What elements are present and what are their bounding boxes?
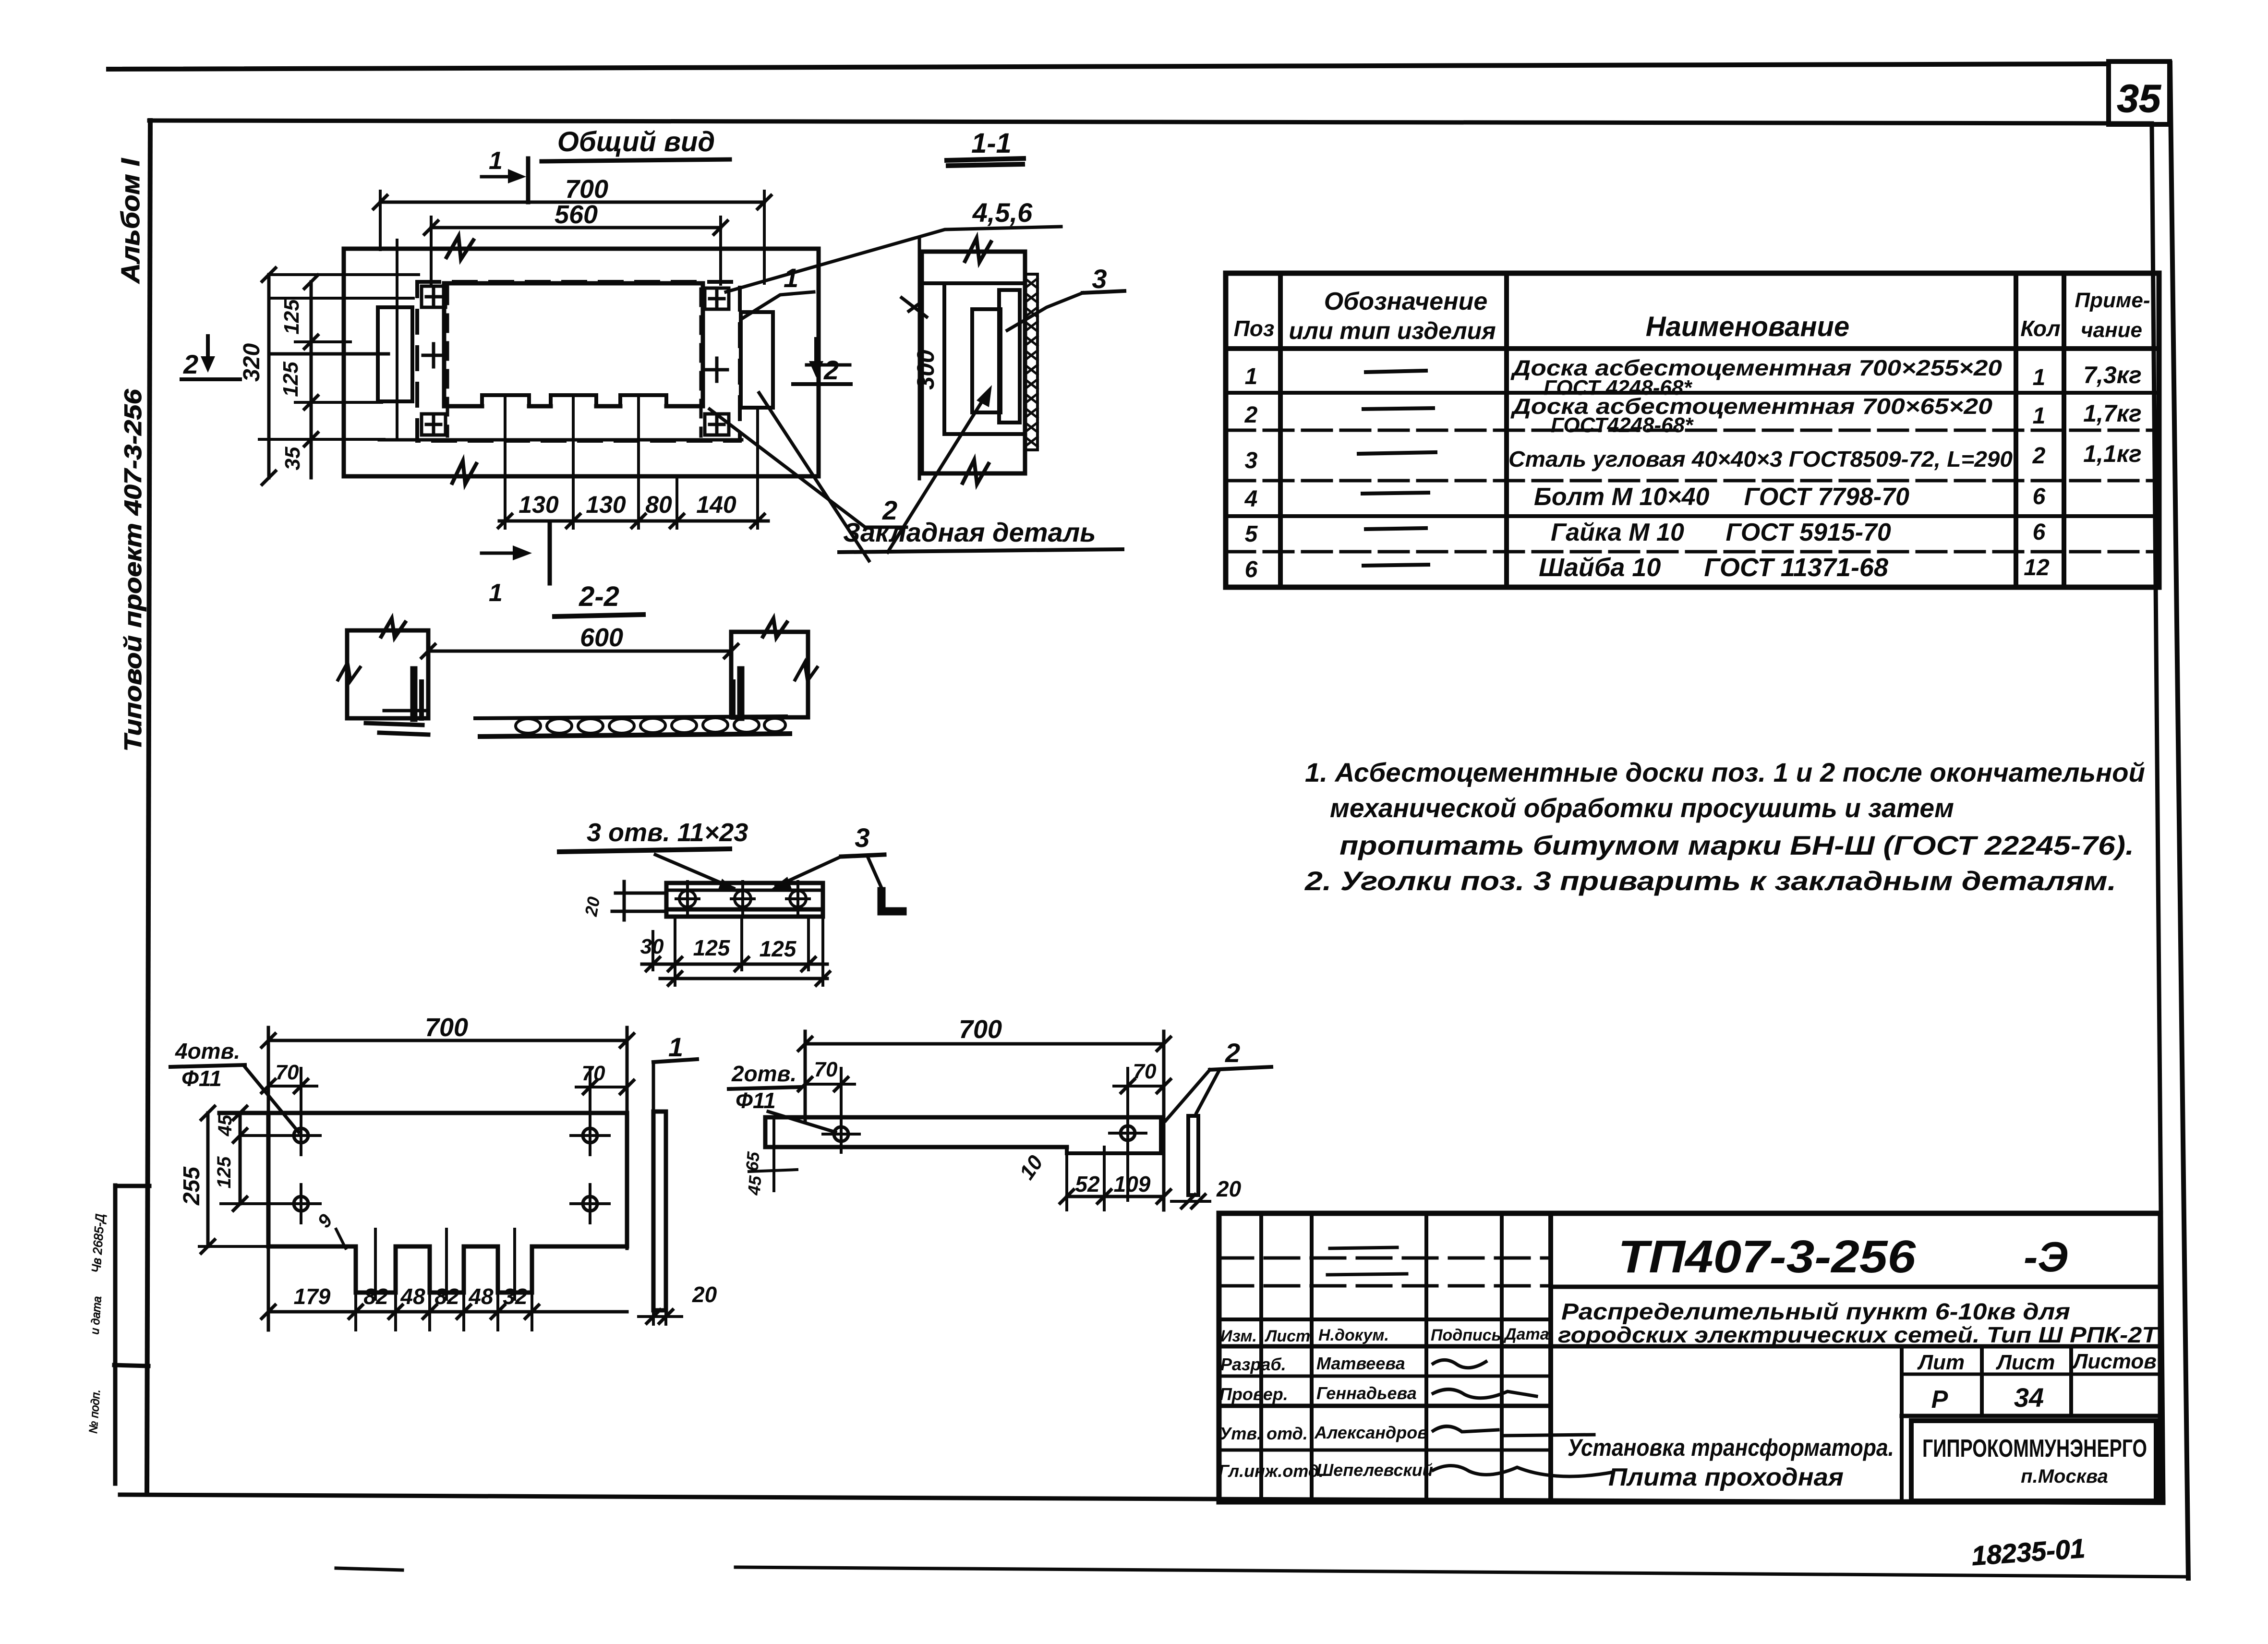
svg-text:125: 125: [279, 362, 302, 397]
svg-text:Гл.инж.отд.: Гл.инж.отд.: [1218, 1461, 1324, 1481]
svg-text:130: 130: [519, 491, 559, 518]
overall width line: [660, 977, 827, 980]
bottom dimension line 130/130/80/140: [499, 520, 768, 523]
svg-text:1,1кг: 1,1кг: [2083, 440, 2142, 467]
svg-text:Сталь угловая 40×40×3 ГОСТ8509: Сталь угловая 40×40×3 ГОСТ8509-72, L=290: [1508, 447, 2013, 471]
tab 2: [551, 395, 596, 406]
asbestos board strip with holes: [475, 716, 786, 718]
svg-text:Установка трансформатора.: Установка трансформатора.: [1568, 1434, 1894, 1461]
dimension 600: [428, 650, 731, 653]
block outline 1-1: [922, 252, 1025, 473]
svg-text:Поз: Поз: [1234, 316, 1275, 341]
svg-text:45: 45: [215, 1114, 236, 1136]
dimension chain 45/125: [239, 1113, 242, 1204]
svg-text:Альбом I: Альбом I: [116, 158, 145, 284]
board plank (pos 3 area): [999, 290, 1020, 423]
svg-text:700: 700: [565, 175, 608, 204]
break mark bottom: [963, 460, 989, 484]
dimension 560: [431, 226, 721, 230]
leader to 1-1 plank with arrow: [888, 392, 988, 552]
svg-text:255: 255: [179, 1166, 205, 1206]
header bottom line: [1226, 346, 2159, 351]
svg-text:Матвеева: Матвеева: [1316, 1354, 1405, 1373]
bolt cross left middle: [423, 344, 444, 367]
dimension 700 (top): [380, 201, 764, 204]
inner frame bottom: [120, 1495, 2163, 1503]
svg-text:Лист: Лист: [1996, 1351, 2055, 1374]
svg-text:700: 700: [959, 1015, 1002, 1044]
dimension 320 (left chain): [267, 275, 271, 478]
inner frame top: [149, 121, 2152, 123]
project number cell: [1551, 1285, 2160, 1289]
svg-text:700: 700: [425, 1013, 468, 1042]
svg-text:чание: чание: [2081, 318, 2142, 342]
svg-text:125: 125: [760, 936, 797, 961]
svg-text:Общий вид: Общий вид: [557, 126, 715, 157]
svg-text:20: 20: [581, 895, 604, 919]
left block 2-2: [347, 630, 428, 718]
svg-text:6: 6: [1245, 557, 1258, 582]
angle bar detail: [666, 883, 823, 917]
svg-text:Дата: Дата: [1503, 1325, 1549, 1343]
svg-text:1. Асбестоцементные доски поз.: 1. Асбестоцементные доски поз. 1 и 2 пос…: [1305, 757, 2145, 787]
hole left plate2: [834, 1127, 848, 1141]
svg-text:1: 1: [668, 1032, 683, 1062]
dashed fastener columns: [446, 287, 449, 436]
top rule of sheet: [109, 64, 2109, 69]
svg-text:1: 1: [489, 147, 503, 175]
svg-text:82: 82: [434, 1284, 459, 1309]
signature table verticals: [1259, 1213, 1263, 1502]
svg-text:125: 125: [214, 1156, 235, 1188]
svg-text:140: 140: [696, 491, 736, 518]
svg-text:п.Москва: п.Москва: [2021, 1466, 2108, 1487]
svg-text:130: 130: [586, 491, 626, 518]
left stub of bar: [612, 893, 666, 911]
svg-text:3: 3: [1092, 264, 1107, 294]
svg-text:1: 1: [784, 263, 798, 293]
svg-text:-Э: -Э: [2024, 1233, 2068, 1281]
svg-text:3 отв. 11×23: 3 отв. 11×23: [587, 818, 748, 847]
opening rect 1-1: [972, 309, 1001, 412]
bolt group left bottom: [422, 414, 446, 435]
break mark on top edge: [446, 236, 473, 259]
svg-text:ТП407-3-256: ТП407-3-256: [1618, 1231, 1916, 1282]
bottom stub line: [336, 1568, 402, 1570]
parts table outer border: [1226, 273, 2159, 587]
svg-text:ГОСТ4248-68*: ГОСТ4248-68*: [1551, 413, 1694, 437]
svg-text:12: 12: [2024, 555, 2050, 580]
svg-text:6: 6: [2033, 520, 2046, 545]
svg-text:Распределительный пункт 6-10кв: Распределительный пункт 6-10кв для: [1561, 1299, 2070, 1325]
bolt holes on bar: [679, 891, 696, 907]
svg-text:Болт М 10×40 ГОСТ 7798-70: Болт М 10×40 ГОСТ 7798-70: [1534, 483, 1909, 511]
bolt group right bottom: [705, 414, 729, 435]
hole right plate2: [1121, 1126, 1135, 1140]
break mark top: [965, 238, 991, 262]
dims 52 / 109: [1067, 1195, 1164, 1198]
svg-text:45: 45: [744, 1174, 765, 1196]
edge view bar plate2: [1188, 1116, 1198, 1195]
svg-text:Листов: Листов: [2072, 1350, 2157, 1373]
svg-text:320: 320: [239, 343, 265, 382]
title block outer border: [1219, 1213, 2160, 1502]
svg-text:Приме-: Приме-: [2075, 289, 2150, 312]
svg-text:5: 5: [1245, 521, 1258, 547]
svg-text:70: 70: [276, 1061, 299, 1084]
svg-text:Геннадьева: Геннадьева: [1316, 1383, 1417, 1403]
svg-text:20: 20: [692, 1282, 717, 1307]
holes plate1: [294, 1128, 308, 1143]
svg-text:70: 70: [814, 1058, 838, 1081]
svg-text:2-2: 2-2: [579, 581, 619, 612]
svg-text:82: 82: [363, 1284, 388, 1309]
svg-text:Р: Р: [1931, 1386, 1948, 1414]
svg-text:2. Уголки поз. 3 приварить к з: 2. Уголки поз. 3 приварить к закладным д…: [1304, 866, 2116, 896]
concrete block outline: [344, 249, 819, 476]
section 2 cut line right with marker: [807, 363, 850, 367]
page number box 35: [2109, 61, 2170, 124]
svg-text:Наименование: Наименование: [1646, 311, 1849, 342]
svg-text:65: 65: [742, 1150, 763, 1172]
svg-text:3: 3: [1245, 448, 1258, 473]
svg-text:48: 48: [400, 1284, 425, 1309]
break mark on bottom edge: [452, 461, 476, 484]
angle steel left: [410, 670, 418, 718]
svg-text:4отв.: 4отв.: [175, 1039, 240, 1064]
section 2 cut line left with marker: [269, 352, 388, 356]
svg-text:1: 1: [489, 579, 503, 607]
svg-text:125: 125: [693, 935, 731, 960]
dimension 255: [206, 1113, 210, 1246]
svg-text:2: 2: [1225, 1038, 1240, 1068]
dimension 700 plate1: [268, 1039, 627, 1042]
svg-text:80: 80: [645, 491, 672, 518]
svg-text:Ф11: Ф11: [736, 1088, 776, 1113]
column line pos: [1278, 273, 1283, 587]
detail dimensions 30/125/125: [653, 917, 808, 970]
svg-text:Шепелевский: Шепелевский: [1316, 1460, 1433, 1480]
svg-text:Закладная деталь: Закладная деталь: [843, 517, 1096, 547]
dimension chain 125/125/35: [310, 282, 313, 478]
svg-text:пропитать битумом марки БН-Ш (: пропитать битумом марки БН-Ш (ГОСТ 22245…: [1339, 830, 2134, 860]
svg-text:109: 109: [1114, 1172, 1151, 1197]
dimension 700 plate2: [805, 1042, 1164, 1046]
signature table horizontals: [1219, 1257, 1551, 1260]
svg-text:Н.докум.: Н.докум.: [1318, 1326, 1389, 1344]
leader to general view: [759, 393, 869, 561]
svg-text:Ф11: Ф11: [181, 1066, 222, 1091]
svg-text:и дата: и дата: [88, 1296, 104, 1335]
svg-text:20: 20: [1216, 1176, 1242, 1201]
right angle bracket: [741, 312, 773, 408]
svg-text:6: 6: [2033, 484, 2046, 509]
smudge under left block: [366, 723, 428, 735]
svg-text:Лист: Лист: [1264, 1327, 1310, 1345]
svg-text:30: 30: [640, 935, 664, 958]
svg-text:Разраб.: Разраб.: [1220, 1354, 1286, 1374]
diagonal to hole from callout: [245, 1067, 269, 1096]
svg-text:Подпись: Подпись: [1431, 1326, 1501, 1344]
bottom-left inventory box: [113, 1185, 118, 1484]
svg-text:1: 1: [1245, 364, 1258, 389]
svg-text:48: 48: [468, 1284, 494, 1309]
svg-text:механической обработки просуши: механической обработки просушить и затем: [1330, 793, 1954, 823]
svg-text:Обозначение: Обозначение: [1324, 288, 1488, 315]
angle steel right: [737, 670, 745, 717]
inner frame left vertical: [147, 121, 150, 1492]
svg-text:4: 4: [1244, 486, 1258, 512]
svg-text:Кол: Кол: [2020, 316, 2060, 341]
plate outline top: [219, 1111, 627, 1115]
institute logo box: [1911, 1421, 2156, 1501]
column line designation: [1504, 273, 1509, 587]
svg-text:Александров: Александров: [1314, 1423, 1428, 1442]
outer bottom rule: [736, 1567, 2188, 1577]
section marker 1 (bottom): [548, 524, 552, 583]
tab 1 on opening bottom: [482, 395, 529, 406]
svg-text:125: 125: [280, 299, 303, 335]
svg-text:или тип изделия: или тип изделия: [1289, 317, 1496, 344]
svg-text:560: 560: [555, 200, 598, 229]
bolt cross right middle: [706, 358, 727, 381]
column line qty: [2062, 273, 2066, 587]
bottom dimension chain 179/82/48/82/48/32: [268, 1310, 627, 1314]
board outline plate2: [765, 1115, 1161, 1120]
svg-text:7,3кг: 7,3кг: [2083, 362, 2142, 388]
right block 2-2: [731, 632, 808, 717]
svg-text:1-1: 1-1: [971, 128, 1012, 159]
svg-text:2: 2: [1244, 402, 1258, 428]
svg-text:32: 32: [503, 1284, 528, 1309]
plate left/right edges: [268, 1113, 627, 1246]
opening (inner solid rectangle): [444, 283, 703, 406]
svg-text:ГИПРОКОММУНЭНЕРГО: ГИПРОКОММУНЭНЕРГО: [1922, 1435, 2147, 1463]
svg-text:3: 3: [855, 822, 869, 853]
svg-text:Лит: Лит: [1917, 1351, 1965, 1374]
svg-text:600: 600: [580, 623, 623, 652]
svg-text:городских электрических сетей.: городских электрических сетей. Тип Ш РПК…: [1558, 1322, 2159, 1347]
svg-text:179: 179: [294, 1284, 331, 1309]
tab centerlines: [375, 1229, 515, 1299]
row lines: [1226, 391, 2159, 395]
left angle bracket: [378, 307, 412, 401]
tab 3: [620, 395, 666, 406]
embedded plate (dashed outline): [417, 282, 740, 441]
dashes in upper doc column: [1327, 1247, 1407, 1275]
svg-text:Плита проходная: Плита проходная: [1608, 1463, 1844, 1491]
svg-text:2отв.: 2отв.: [731, 1061, 796, 1086]
svg-text:Изм.: Изм.: [1220, 1327, 1257, 1345]
left small dims 65/45: [772, 1117, 775, 1191]
svg-text:2: 2: [823, 355, 839, 385]
column line name: [2014, 273, 2018, 587]
inner ledge lines: [922, 281, 1025, 285]
svg-text:1: 1: [2033, 365, 2046, 390]
svg-text:1: 1: [2033, 403, 2046, 429]
plate bottom with tabs: [268, 1245, 356, 1249]
svg-text:35: 35: [2117, 77, 2161, 121]
svg-text:52: 52: [1075, 1172, 1100, 1197]
svg-text:2: 2: [183, 349, 198, 379]
hatched embedded strip: [1025, 274, 1037, 450]
svg-text:Шайба 10 ГОСТ 11371-68: Шайба 10 ГОСТ 11371-68: [1539, 553, 1888, 582]
svg-text:Типовой проект 407-3-256: Типовой проект 407-3-256: [120, 388, 146, 751]
inner frame right vertical: [2152, 123, 2163, 1503]
small angle symbol: [881, 891, 903, 911]
svg-text:34: 34: [2014, 1382, 2044, 1413]
svg-text:Гайка М 10 ГОСТ 5915-70: Гайка М 10 ГОСТ 5915-70: [1551, 519, 1891, 546]
svg-text:4,5,6: 4,5,6: [972, 197, 1033, 228]
left dimension extension line: [918, 240, 921, 479]
svg-text:300: 300: [912, 350, 939, 390]
bolt group left top: [422, 286, 446, 307]
outer right vertical: [2170, 63, 2188, 1578]
svg-text:1,7кг: 1,7кг: [2083, 400, 2142, 427]
lit/list/listov cells: [1900, 1346, 1904, 1502]
svg-text:Утв. отд.: Утв. отд.: [1219, 1424, 1308, 1443]
bolt group right top: [705, 288, 729, 309]
svg-text:2: 2: [2032, 443, 2046, 469]
svg-text:Провер.: Провер.: [1219, 1384, 1288, 1404]
svg-text:35: 35: [281, 447, 304, 470]
